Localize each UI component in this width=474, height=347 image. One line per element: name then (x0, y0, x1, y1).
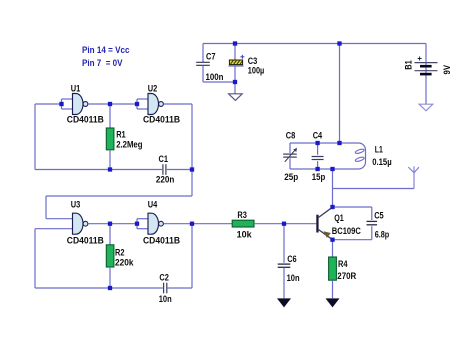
svg-text:CD4011B: CD4011B (143, 235, 180, 245)
svg-text:R4: R4 (338, 259, 348, 269)
svg-text:0.15µ: 0.15µ (372, 157, 392, 167)
svg-text:100n: 100n (206, 72, 224, 82)
svg-text:U3: U3 (71, 199, 81, 209)
svg-text:B1: B1 (403, 60, 413, 70)
svg-text:Pin 14 = Vcc: Pin 14 = Vcc (82, 45, 130, 55)
svg-text:C2: C2 (159, 273, 169, 283)
svg-text:U4: U4 (148, 199, 158, 209)
svg-text:U1: U1 (71, 83, 81, 93)
svg-text:C5: C5 (374, 211, 384, 221)
svg-text:9V: 9V (442, 64, 452, 74)
svg-text:10n: 10n (159, 294, 172, 304)
svg-text:C6: C6 (287, 254, 297, 264)
svg-text:270R: 270R (337, 271, 356, 281)
svg-text:C1: C1 (159, 154, 169, 164)
svg-text:C7: C7 (206, 52, 216, 62)
svg-text:CD4011B: CD4011B (143, 115, 180, 125)
svg-text:C8: C8 (286, 131, 296, 141)
svg-text:R2: R2 (115, 247, 125, 257)
svg-text:L1: L1 (375, 144, 383, 154)
svg-text:6.8p: 6.8p (375, 230, 390, 240)
svg-text:R1: R1 (116, 129, 126, 139)
svg-text:CD4011B: CD4011B (67, 115, 104, 125)
svg-text:10k: 10k (237, 230, 253, 240)
svg-text:Pin 7 = 0V: Pin 7 = 0V (82, 58, 123, 68)
svg-text:10n: 10n (287, 273, 300, 283)
svg-text:2.2Meg: 2.2Meg (116, 140, 142, 150)
svg-text:CD4011B: CD4011B (67, 235, 104, 245)
svg-text:220n: 220n (156, 174, 175, 184)
svg-text:U2: U2 (148, 83, 158, 93)
svg-text:C4: C4 (313, 131, 323, 141)
svg-text:25p: 25p (284, 172, 298, 182)
svg-text:R3: R3 (237, 210, 247, 220)
svg-text:220k: 220k (115, 258, 134, 268)
svg-text:BC109C: BC109C (332, 226, 361, 236)
svg-text:100µ: 100µ (248, 65, 264, 75)
svg-text:Q1: Q1 (334, 213, 344, 223)
svg-text:15p: 15p (312, 172, 326, 182)
